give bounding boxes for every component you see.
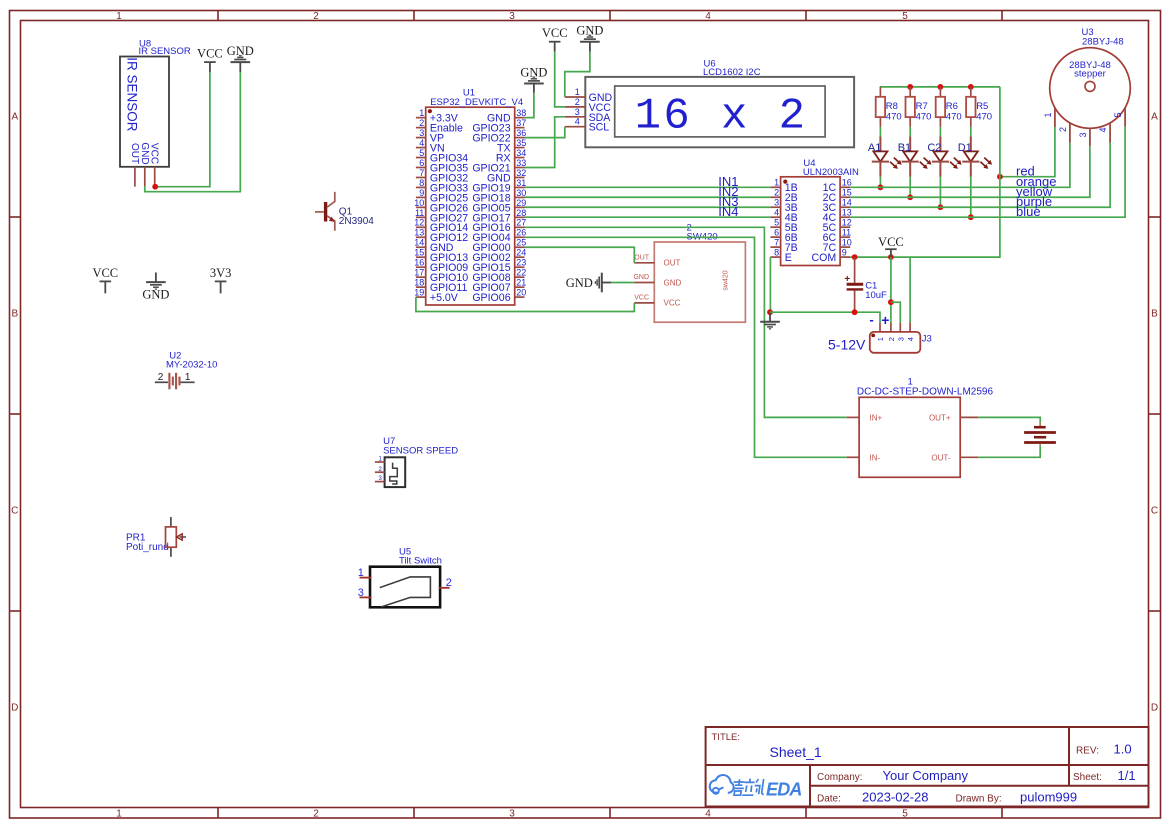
svg-text:26: 26: [516, 228, 526, 238]
svg-text:GPIO06: GPIO06: [472, 292, 510, 304]
U1 pin 37 GPIO23: [472, 118, 526, 135]
svg-text:17: 17: [414, 268, 424, 278]
wire R7 to LED B1: [909, 127, 911, 137]
svg-text:1: 1: [876, 337, 885, 341]
svg-text:4: 4: [705, 11, 711, 22]
svg-text:6: 6: [419, 158, 424, 168]
svg-text:4: 4: [575, 117, 580, 127]
wire LED C2 to ULN output: [939, 177, 941, 207]
U7 pin 3 stub: [375, 481, 385, 483]
junction ground node: [767, 309, 773, 315]
svg-text:2N3904: 2N3904: [339, 216, 374, 227]
svg-text:3V3: 3V3: [210, 266, 232, 280]
svg-text:C: C: [1151, 506, 1158, 517]
speed sensor U7: [383, 436, 458, 487]
svg-text:COM: COM: [811, 252, 836, 264]
svg-text:37: 37: [516, 118, 526, 128]
U1 pin 6 GPIO35: [416, 158, 468, 175]
svg-text:C: C: [11, 506, 18, 517]
svg-text:15: 15: [414, 248, 424, 258]
U8 pin OUT stub: [134, 167, 136, 187]
svg-text:32: 32: [516, 168, 526, 178]
U1 pin 11 GPIO27: [415, 208, 468, 225]
junction COM and VCC: [888, 254, 894, 260]
wire GPIO17 to U4 4B net IN4: [525, 216, 771, 218]
svg-text:3: 3: [575, 107, 580, 117]
U5 pin 2 stub: [439, 587, 450, 589]
U1 pin 19 +5.0V: [414, 288, 459, 305]
svg-text:VCC: VCC: [92, 266, 118, 280]
svg-text:+5.0V: +5.0V: [430, 292, 459, 304]
wire OUT+ to battery: [978, 417, 1040, 423]
LED C2: [927, 137, 961, 177]
svg-text:ULN2003AIN: ULN2003AIN: [803, 167, 859, 178]
svg-text:B: B: [11, 309, 18, 320]
frame column ticks top: [218, 11, 1002, 21]
svg-text:3: 3: [1078, 132, 1088, 137]
svg-text:2023-02-28: 2023-02-28: [862, 790, 929, 805]
resistor R7 470: [906, 87, 932, 127]
U1 pin 12 GPIO14: [414, 218, 468, 235]
wire ESP32 GPIO00 to SW420 OUT: [525, 247, 635, 263]
svg-text:13: 13: [842, 208, 852, 218]
svg-text:Drawn By:: Drawn By:: [956, 793, 1002, 804]
svg-text:10uF: 10uF: [865, 290, 887, 301]
svg-text:IR SENSOR: IR SENSOR: [139, 46, 191, 57]
svg-text:18: 18: [414, 278, 424, 288]
U8 pin GND stub: [144, 167, 146, 187]
U1 pin 4 VN: [416, 138, 445, 155]
svg-text:1: 1: [575, 87, 580, 97]
U4 pin 9 COM: [811, 247, 850, 263]
svg-text:VCC: VCC: [197, 47, 223, 61]
svg-text:A: A: [11, 112, 18, 123]
U4 pin 8 E: [770, 247, 791, 263]
svg-text:3: 3: [419, 128, 424, 138]
svg-text:3: 3: [509, 11, 515, 22]
svg-text:2: 2: [313, 809, 319, 820]
svg-text:5-12V: 5-12V: [828, 336, 866, 352]
LM2596 pin OUT- stub: [960, 456, 978, 458]
svg-text:Poti_rund: Poti_rund: [126, 542, 169, 553]
U1 pin 17 GPIO10: [414, 268, 468, 285]
SW420 pin VCC stub: [634, 295, 654, 303]
svg-text:31: 31: [516, 178, 526, 188]
svg-text:4: 4: [774, 208, 779, 218]
svg-text:36: 36: [516, 128, 526, 138]
svg-text:OUT: OUT: [634, 255, 650, 262]
3V3 power symbol floating: [210, 266, 232, 294]
svg-text:8: 8: [774, 247, 779, 257]
U1 pin 32 GND: [487, 168, 526, 185]
SW420 pin GND stub: [633, 274, 654, 282]
frame row ticks left: [10, 217, 21, 611]
title block frame: [706, 727, 1149, 807]
U3 pin 3 stub: [1078, 128, 1090, 146]
U6 pin 2 VCC: [565, 97, 612, 114]
svg-text:10: 10: [414, 198, 424, 208]
svg-text:9: 9: [842, 247, 847, 257]
svg-text:OUT-: OUT-: [931, 453, 950, 462]
U4 pin 15 2C: [823, 188, 852, 205]
svg-text:470: 470: [946, 111, 962, 122]
wire net orange: U4 1C to stepper pin 2: [850, 143, 1070, 187]
wire LED A1 to ULN output: [879, 177, 881, 188]
U7 pin 2 stub: [375, 471, 385, 473]
U1 pin 8 GPIO33: [416, 178, 468, 195]
title block Date: [817, 790, 1077, 805]
converter DC-DC-STEP-DOWN-LM2596: [857, 376, 994, 477]
wire ESP32 GPIO22 to LCD SCL: [525, 127, 565, 138]
wire LED B1 to ULN output: [909, 177, 911, 197]
U1 pin 35 TX: [497, 138, 526, 155]
LED A1: [868, 137, 902, 177]
svg-text:30: 30: [516, 188, 526, 198]
svg-text:4: 4: [1098, 127, 1108, 132]
svg-text:11: 11: [842, 228, 851, 238]
svg-text:14: 14: [414, 238, 424, 248]
U1 pin 18 GPIO11: [414, 278, 467, 295]
junction top rail R6: [938, 84, 944, 90]
U4 pin 12 5C: [823, 218, 852, 235]
wire GPIO05 to U4 3B net IN3: [525, 206, 771, 208]
svg-text:1: 1: [1043, 112, 1053, 117]
U1 pin 9 GPIO25: [416, 188, 468, 205]
svg-text:2: 2: [774, 188, 779, 198]
capacitor C1 10uF: [844, 257, 887, 312]
VCC power symbol floating: [92, 266, 118, 294]
frame row letters right: [1151, 112, 1158, 714]
svg-text:2: 2: [313, 11, 319, 22]
U4 pin 2 2B: [770, 188, 797, 205]
svg-text:blue: blue: [1016, 204, 1041, 219]
svg-text:4: 4: [419, 138, 424, 148]
svg-text:2: 2: [419, 118, 424, 128]
svg-text:34: 34: [516, 148, 526, 158]
wire U4 E pin to ground: [769, 257, 771, 312]
wire ESP32 GPIO21 to LCD SDA: [525, 117, 565, 168]
wire GPIO16 to LM2596 IN+: [525, 227, 847, 417]
svg-text:12: 12: [842, 218, 852, 228]
U1 pin 14 GND: [414, 238, 454, 255]
battery cell symbol: [1024, 423, 1056, 445]
U1 pin 15 GPIO13: [414, 248, 468, 265]
logo JLC EDA: [710, 775, 802, 799]
svg-text:2: 2: [1058, 127, 1068, 132]
svg-text:D: D: [11, 703, 18, 714]
wire VCC to J3 pin 2: [890, 257, 892, 323]
svg-text:Sheet:: Sheet:: [1073, 772, 1102, 783]
IC U1 ESP32_DEVKITC_V4 body: [426, 88, 523, 305]
svg-text:3: 3: [774, 198, 779, 208]
U1 pin 38 GND: [487, 108, 526, 125]
svg-text:DC-DC-STEP-DOWN-LM2596: DC-DC-STEP-DOWN-LM2596: [857, 386, 994, 397]
U7 pin numbers: [378, 457, 382, 483]
svg-text:1: 1: [419, 108, 424, 118]
frame row letters left: [11, 112, 18, 714]
svg-text:16 x 2: 16 x 2: [635, 91, 808, 141]
svg-text:SENSOR SPEED: SENSOR SPEED: [383, 446, 458, 457]
U5 pin 3 stub: [360, 596, 372, 598]
IR sensor U8 body: [120, 38, 169, 166]
transistor Q1 2N3904: [315, 192, 374, 231]
svg-text:GND: GND: [139, 142, 150, 164]
VCC power symbol near U8: [197, 47, 223, 73]
svg-text:470: 470: [916, 111, 932, 122]
svg-text:5: 5: [902, 11, 908, 22]
U4 pin 13 4C: [823, 208, 852, 225]
potentiometer PR1 Poti_rund: [126, 517, 186, 557]
U1 pin 13 GPIO12: [414, 228, 468, 245]
svg-text:1/1: 1/1: [1118, 768, 1136, 783]
wire R6 to LED C2: [939, 127, 941, 137]
svg-text:GND: GND: [633, 274, 649, 281]
U4 pin 10 7C: [823, 238, 852, 255]
U1 pin 1 +3.3V: [416, 108, 459, 125]
svg-text:27: 27: [516, 218, 526, 228]
wire resistor top rail: [880, 86, 1000, 88]
U1 pin 29 GPIO05: [472, 198, 526, 215]
U1 pin 26 GPIO04: [472, 228, 526, 245]
svg-text:38: 38: [516, 108, 526, 118]
svg-text:4: 4: [906, 337, 915, 341]
svg-text:14: 14: [842, 198, 852, 208]
svg-text:2: 2: [158, 372, 164, 383]
U1 pin 10 GPIO26: [414, 198, 468, 215]
svg-text:EDA: EDA: [766, 780, 802, 800]
LM2596 pin IN- stub: [847, 456, 859, 458]
SW420 pin OUT stub: [634, 255, 654, 263]
U1 pin 34 RX: [496, 148, 526, 165]
svg-text:SCL: SCL: [589, 122, 610, 134]
svg-text:A1: A1: [868, 142, 881, 154]
svg-text:6: 6: [774, 228, 779, 238]
svg-text:-: -: [869, 312, 873, 327]
wire net red: VCC rail to stepper pin 1: [1000, 127, 1055, 177]
wire branch to J3 pin 3: [891, 302, 900, 322]
U1 pin 31 GPIO19: [472, 178, 526, 195]
LCD U6 LCD1602 I2C body: [585, 58, 854, 147]
svg-text:35: 35: [516, 138, 526, 148]
title block Company: [817, 768, 969, 783]
U3 pin 4 stub: [1098, 123, 1110, 143]
svg-text:1: 1: [774, 178, 779, 188]
connector J3: [870, 323, 932, 353]
U3 pin 5 stub: [1113, 107, 1125, 126]
junction U8 VCC: [152, 184, 158, 190]
title block REV: [1076, 742, 1132, 757]
wire net purple: U4 3C to stepper pin 4: [850, 143, 1110, 208]
svg-text:D: D: [1151, 703, 1158, 714]
U4 pin 16 1C: [823, 178, 852, 195]
svg-text:12: 12: [414, 218, 424, 228]
svg-text:28BYJ-48: 28BYJ-48: [1082, 36, 1124, 47]
GND power symbol at ESP32 pin 38: [520, 66, 547, 93]
svg-text:16: 16: [842, 178, 852, 188]
U1 pin 33 GPIO21: [472, 158, 526, 175]
U1 pin 7 GPIO32: [416, 168, 468, 185]
U1 pin 27 GPIO16: [472, 218, 526, 235]
frame column ticks bottom: [218, 808, 1002, 819]
svg-text:470: 470: [886, 111, 902, 122]
svg-text:Your Company: Your Company: [883, 768, 969, 783]
svg-text:VCC: VCC: [878, 235, 904, 249]
junction LED B1: [907, 194, 913, 200]
U1 pin 5 GPIO34: [416, 148, 468, 165]
U1 pin 22 GPIO08: [472, 268, 526, 285]
svg-text:7: 7: [419, 168, 424, 178]
resistor R5 470: [966, 87, 992, 127]
svg-text:1: 1: [358, 567, 364, 579]
U1 pin 36 GPIO22: [472, 128, 526, 145]
wire U4 COM rail to VCC feed: [850, 87, 1000, 257]
U1 pin 25 GPIO00: [472, 238, 526, 255]
U1 pin 20 GPIO06: [472, 288, 526, 305]
vibration sensor SW420 body: [654, 223, 745, 323]
junction LED C2: [938, 204, 944, 210]
svg-text:10: 10: [842, 238, 852, 248]
svg-text:15: 15: [842, 188, 852, 198]
junction net red: [997, 174, 1003, 180]
wire GND symbol to SW420 GND: [611, 282, 634, 284]
LED D1: [958, 137, 992, 177]
wire GND symbol to LCD pin1: [565, 52, 590, 97]
svg-text:2: 2: [887, 337, 896, 341]
svg-text:3: 3: [896, 337, 905, 341]
svg-text:E: E: [785, 252, 792, 264]
IC U4 ULN2003AIN body: [781, 158, 859, 265]
U1 pin 2 Enable: [416, 118, 463, 135]
ground symbol below U4: [760, 312, 780, 329]
svg-text:1: 1: [116, 11, 122, 22]
svg-text:VCC: VCC: [542, 26, 568, 40]
U4 pin 7 7B: [770, 238, 797, 255]
svg-text:C2: C2: [927, 142, 941, 154]
svg-text:IR SENSOR: IR SENSOR: [125, 57, 140, 132]
junction C1 bottom: [852, 309, 858, 315]
wire GPIO18 to U4 2B net IN2: [525, 196, 771, 198]
svg-text:LCD1602 I2C: LCD1602 I2C: [703, 67, 761, 78]
svg-text:J3: J3: [922, 334, 932, 345]
svg-text:TITLE:: TITLE:: [712, 732, 741, 743]
svg-text:Sheet_1: Sheet_1: [770, 744, 822, 760]
resistor R6 470: [936, 87, 962, 127]
battery U2 MY-2032-10: [155, 350, 218, 389]
U4 pin 1 1B: [770, 178, 797, 195]
svg-text:Date:: Date:: [817, 793, 841, 804]
wire GPIO04 to LM2596 IN-: [525, 237, 847, 457]
svg-text:13: 13: [414, 228, 424, 238]
U3 pin 2 stub: [1058, 123, 1070, 143]
wire VCC symbol to LCD pin2: [555, 52, 565, 107]
svg-text:Tilt Switch: Tilt Switch: [399, 556, 442, 567]
U4 pin 3 3B: [770, 198, 797, 215]
svg-text:Company:: Company:: [817, 772, 863, 783]
junction top rail R5: [968, 84, 974, 90]
title block Sheet: [1073, 768, 1136, 783]
svg-text:VCC: VCC: [634, 295, 649, 302]
GND power symbol near U8: [227, 44, 254, 72]
svg-text:ESP32_DEVKITC_V4: ESP32_DEVKITC_V4: [430, 97, 523, 108]
svg-text:470: 470: [976, 111, 992, 122]
svg-text:1: 1: [185, 372, 191, 383]
svg-text:MY-2032-10: MY-2032-10: [166, 360, 217, 371]
wire OUT- to battery: [978, 445, 1040, 457]
LM2596 pin IN+ stub: [847, 416, 859, 418]
svg-text:VCC: VCC: [664, 299, 681, 308]
U1 pin 30 GPIO18: [472, 188, 526, 205]
svg-text:+: +: [881, 312, 889, 328]
svg-text:3: 3: [358, 587, 364, 599]
svg-text:16: 16: [414, 258, 424, 268]
svg-text:1.0: 1.0: [1114, 742, 1132, 757]
svg-text:GND: GND: [664, 278, 682, 287]
U6 pin 3 SDA: [565, 107, 612, 124]
junction J3 pin2 branch: [888, 299, 894, 305]
U7 pin 1 stub: [375, 461, 385, 463]
junction top rail R7: [907, 84, 913, 90]
U1 pin 24 GPIO02: [472, 248, 526, 265]
U1 pin 23 GPIO15: [472, 258, 526, 275]
svg-text:pulom999: pulom999: [1020, 790, 1077, 805]
frame column numbers bottom: [116, 809, 908, 820]
wire COM rail to J3 pin 4: [909, 257, 911, 323]
svg-text:stepper: stepper: [1074, 68, 1106, 79]
wire LED D1 to ULN output: [970, 177, 972, 217]
VCC power symbol near C1: [878, 235, 904, 257]
svg-text:VCC: VCC: [149, 143, 160, 164]
svg-text:23: 23: [516, 258, 526, 268]
U1 pin 28 GPIO17: [472, 208, 526, 225]
LM2596 pin OUT+ stub: [960, 416, 978, 418]
GND power symbol at SW420: [566, 273, 612, 293]
svg-text:33: 33: [516, 158, 526, 168]
svg-text:19: 19: [414, 288, 424, 298]
U4 pin 11 6C: [823, 228, 851, 245]
tilt switch U5: [370, 546, 442, 607]
U1 pin 16 GPIO09: [414, 258, 468, 275]
U4 pin 4 4B: [770, 208, 797, 225]
svg-text:A: A: [1151, 112, 1158, 123]
wire R8 to LED A1: [879, 127, 881, 137]
wire ESP32 +5.0V to SW420 VCC: [416, 297, 634, 311]
wire U8 GND to GND symbol: [145, 72, 241, 192]
svg-text:28: 28: [516, 208, 526, 218]
svg-text:OUT: OUT: [664, 259, 681, 268]
wire net blue: U4 4C to stepper pin 5: [850, 127, 1125, 218]
wire ground rail to J3 pin 1: [770, 312, 880, 322]
svg-text:29: 29: [516, 198, 526, 208]
svg-text:5: 5: [902, 809, 908, 820]
wire U8 VCC to VCC symbol: [155, 72, 210, 187]
svg-text:B: B: [1151, 309, 1158, 320]
stepper motor U3 28BYJ-48 body: [1050, 27, 1131, 128]
svg-text:B1: B1: [898, 142, 911, 154]
U4 pin 14 3C: [823, 198, 852, 215]
svg-text:OUT: OUT: [129, 143, 140, 164]
svg-text:3: 3: [509, 809, 515, 820]
wire net yellow: U4 2C to stepper pin 3: [850, 146, 1090, 197]
wire ESP32 GND38 to GND symbol: [525, 93, 534, 118]
svg-text:GND: GND: [142, 287, 169, 301]
svg-text:sw420: sw420: [723, 270, 730, 290]
svg-text:2: 2: [446, 577, 452, 589]
svg-text:8: 8: [419, 178, 424, 188]
LED B1: [898, 137, 932, 177]
svg-text:22: 22: [516, 268, 526, 278]
svg-text:7: 7: [774, 238, 779, 248]
svg-text:D1: D1: [958, 142, 972, 154]
